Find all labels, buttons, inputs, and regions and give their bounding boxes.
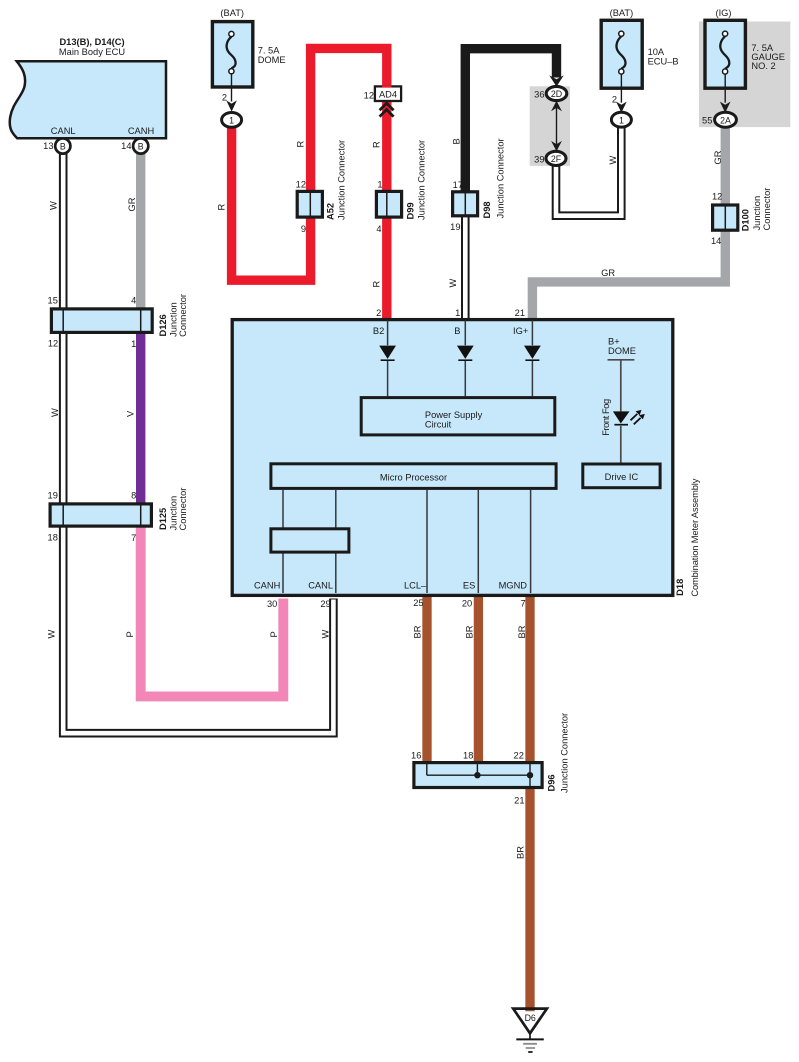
ground D6 bbox=[513, 1009, 547, 1052]
svg-text:(IG): (IG) bbox=[715, 8, 731, 18]
svg-text:20: 20 bbox=[462, 599, 472, 609]
svg-text:2: 2 bbox=[376, 308, 381, 318]
svg-text:D13(B), D14(C): D13(B), D14(C) bbox=[59, 37, 124, 47]
Power Supply Circuit box bbox=[361, 398, 555, 435]
svg-text:1: 1 bbox=[377, 180, 382, 190]
junction connector D98 bbox=[450, 138, 505, 232]
svg-text:1: 1 bbox=[229, 116, 234, 126]
fuse 7.5A DOME bbox=[212, 8, 285, 127]
svg-text:(BAT): (BAT) bbox=[220, 8, 244, 18]
Combination Meter Assembly D18 box bbox=[232, 320, 673, 596]
svg-text:B2: B2 bbox=[373, 326, 384, 336]
svg-text:7: 7 bbox=[521, 599, 526, 609]
meter top pin 1 B lead bbox=[464, 321, 466, 397]
connector 2D bbox=[534, 86, 567, 100]
svg-text:W: W bbox=[47, 630, 57, 639]
LED Front Fog bbox=[613, 410, 645, 463]
wire B from D98 up over to 2D connector bbox=[465, 49, 556, 215]
svg-text:19: 19 bbox=[48, 490, 58, 500]
svg-text:39: 39 bbox=[534, 154, 544, 164]
svg-text:Drive IC: Drive IC bbox=[605, 472, 639, 482]
svg-text:B: B bbox=[454, 326, 460, 336]
svg-text:DOME: DOME bbox=[258, 55, 286, 65]
svg-text:GR: GR bbox=[601, 268, 615, 278]
Micro Processor box bbox=[271, 464, 556, 489]
svg-text:18: 18 bbox=[48, 533, 58, 543]
diode at B2 bbox=[379, 346, 396, 359]
Main Body ECU D13(B), D14(C) box bbox=[10, 61, 166, 138]
Drive IC box bbox=[583, 464, 660, 488]
svg-text:GR: GR bbox=[713, 150, 723, 164]
wire W from 2F to ECU-B fuse circle 1 bbox=[556, 126, 621, 216]
meter top pin 21 IG+ lead bbox=[531, 321, 533, 397]
svg-text:IG+: IG+ bbox=[513, 326, 528, 336]
diode at IG+ bbox=[524, 346, 541, 359]
gray panel behind 2D/2F connector bbox=[530, 86, 570, 166]
svg-text:GR: GR bbox=[127, 197, 137, 211]
svg-text:4: 4 bbox=[131, 296, 136, 306]
svg-text:W: W bbox=[49, 201, 59, 210]
svg-text:D100: D100 bbox=[741, 209, 751, 231]
svg-text:R: R bbox=[372, 141, 382, 148]
B+ DOME node bbox=[608, 336, 636, 411]
svg-text:Junction Connector: Junction Connector bbox=[417, 140, 427, 220]
svg-text:8: 8 bbox=[131, 490, 136, 500]
svg-text:2: 2 bbox=[222, 93, 227, 103]
svg-text:ES: ES bbox=[463, 581, 475, 591]
svg-text:D99: D99 bbox=[406, 202, 416, 219]
svg-text:ECU–B: ECU–B bbox=[648, 56, 679, 66]
svg-text:Connector: Connector bbox=[762, 188, 772, 231]
arrowhead into 2D bbox=[549, 75, 564, 86]
svg-text:R: R bbox=[372, 281, 382, 288]
svg-text:7: 7 bbox=[131, 533, 136, 543]
svg-text:21: 21 bbox=[514, 795, 524, 805]
svg-text:2F: 2F bbox=[551, 154, 562, 164]
svg-text:30: 30 bbox=[267, 599, 277, 609]
Micro Processor box leads down bbox=[283, 490, 531, 593]
svg-text:16: 16 bbox=[411, 750, 421, 760]
svg-text:V: V bbox=[126, 410, 136, 417]
svg-text:DOME: DOME bbox=[608, 346, 636, 356]
svg-text:CANH: CANH bbox=[254, 581, 280, 591]
junction connector D100 bbox=[711, 188, 772, 246]
svg-text:Connector: Connector bbox=[178, 294, 188, 337]
meter top pin 2 B2 lead bbox=[387, 321, 389, 397]
fuse 10A ECU-B bbox=[601, 8, 678, 127]
svg-text:15: 15 bbox=[48, 296, 58, 306]
gray panel behind IG fuse bbox=[699, 22, 790, 128]
svg-text:A52: A52 bbox=[326, 203, 336, 220]
svg-text:29: 29 bbox=[320, 599, 330, 609]
svg-text:21: 21 bbox=[515, 308, 525, 318]
svg-text:Junction Connector: Junction Connector bbox=[337, 140, 347, 220]
svg-text:B+: B+ bbox=[608, 336, 620, 346]
svg-text:BR: BR bbox=[516, 846, 526, 859]
svg-text:Junction: Junction bbox=[752, 196, 762, 231]
svg-text:B: B bbox=[452, 138, 462, 144]
connector 2F bbox=[534, 151, 566, 165]
fuse 7.5A GAUGE NO.2 bbox=[702, 8, 785, 127]
wire GR from pin 14 to D126 bbox=[136, 150, 145, 322]
svg-text:CANL: CANL bbox=[308, 581, 333, 591]
wire W from pin 13 to CANL pin 29 of meter bbox=[63, 150, 333, 733]
svg-text:13: 13 bbox=[43, 141, 53, 151]
svg-text:W: W bbox=[608, 156, 618, 165]
svg-text:BR: BR bbox=[465, 625, 475, 638]
svg-text:LCL–: LCL– bbox=[404, 581, 427, 591]
svg-text:D6: D6 bbox=[525, 1013, 536, 1023]
svg-text:Circuit: Circuit bbox=[425, 420, 452, 430]
svg-text:4: 4 bbox=[376, 224, 381, 234]
svg-text:25: 25 bbox=[413, 598, 423, 608]
svg-text:CANH: CANH bbox=[128, 126, 154, 136]
svg-text:22: 22 bbox=[514, 750, 524, 760]
svg-text:2D: 2D bbox=[551, 89, 562, 99]
svg-text:12: 12 bbox=[296, 180, 306, 190]
svg-text:R: R bbox=[296, 141, 306, 148]
wire W from D98 pin 19 down to meter B pin 1 bbox=[461, 216, 470, 320]
wire R from DOME fuse through A52, AD4, D99 to meter B2 bbox=[232, 48, 387, 319]
svg-text:CANL: CANL bbox=[51, 126, 76, 136]
svg-text:19: 19 bbox=[450, 222, 460, 232]
svg-text:D18: D18 bbox=[675, 579, 685, 596]
svg-text:Micro Processor: Micro Processor bbox=[380, 473, 447, 483]
svg-text:55: 55 bbox=[702, 115, 712, 125]
svg-text:7. 5A: 7. 5A bbox=[258, 45, 281, 55]
svg-text:Front Fog: Front Fog bbox=[601, 399, 611, 436]
diode at B bbox=[457, 346, 474, 359]
svg-text:Combination Meter Assembly: Combination Meter Assembly bbox=[690, 478, 700, 596]
junction connector D125 bbox=[48, 488, 188, 543]
svg-text:Power Supply: Power Supply bbox=[425, 410, 483, 420]
svg-text:12: 12 bbox=[364, 90, 374, 100]
junction connector D96 bbox=[411, 713, 569, 806]
arrow line between 2D and 2F bbox=[551, 101, 562, 152]
wire BR from meter ES to D96 pin 18 bbox=[474, 595, 483, 763]
svg-text:(BAT): (BAT) bbox=[610, 8, 634, 18]
svg-text:36: 36 bbox=[534, 90, 544, 100]
svg-text:17: 17 bbox=[453, 180, 463, 190]
svg-text:B: B bbox=[60, 142, 66, 152]
junction connector A52 bbox=[296, 140, 347, 234]
svg-text:BR: BR bbox=[517, 625, 527, 638]
svg-text:BR: BR bbox=[413, 625, 423, 638]
junction connector D126 bbox=[48, 294, 188, 349]
svg-text:B: B bbox=[138, 142, 144, 152]
svg-text:18: 18 bbox=[463, 750, 473, 760]
svg-text:Main Body ECU: Main Body ECU bbox=[59, 47, 125, 57]
svg-text:W: W bbox=[448, 279, 458, 288]
svg-text:D98: D98 bbox=[482, 201, 492, 218]
svg-text:W: W bbox=[50, 408, 60, 417]
svg-text:R: R bbox=[217, 204, 227, 211]
svg-text:12: 12 bbox=[712, 191, 722, 201]
svg-text:Junction Connector: Junction Connector bbox=[559, 713, 569, 793]
svg-text:1: 1 bbox=[619, 115, 624, 125]
CAN resistor box bbox=[271, 529, 349, 552]
svg-text:1: 1 bbox=[131, 339, 136, 349]
svg-text:MGND: MGND bbox=[499, 581, 528, 591]
svg-text:14: 14 bbox=[121, 141, 131, 151]
svg-text:2: 2 bbox=[612, 95, 617, 105]
svg-text:9: 9 bbox=[301, 224, 306, 234]
svg-text:2A: 2A bbox=[720, 115, 731, 125]
junction connector D99 bbox=[376, 140, 426, 234]
wire V from D126 to D125 bbox=[136, 318, 145, 516]
svg-text:P: P bbox=[269, 631, 279, 637]
wire GR from IG fuse 2A through D100 to meter IG+ bbox=[532, 125, 725, 320]
wire BR from meter MGND through D96 pin 22/21 to ground D6 bbox=[525, 595, 534, 1011]
svg-text:AD4: AD4 bbox=[379, 90, 397, 100]
svg-text:14: 14 bbox=[711, 236, 721, 246]
svg-text:W: W bbox=[321, 630, 331, 639]
svg-text:D125: D125 bbox=[158, 508, 168, 530]
wire P from D125 to CANH pin 30 of meter bbox=[141, 512, 284, 696]
svg-text:D96: D96 bbox=[546, 774, 556, 791]
wire BR from meter LCL- to D96 pin 16 bbox=[422, 595, 431, 763]
svg-text:D126: D126 bbox=[158, 314, 168, 336]
svg-text:Connector: Connector bbox=[178, 488, 188, 531]
connector AD4 bbox=[364, 85, 401, 116]
svg-text:P: P bbox=[125, 631, 135, 637]
svg-text:12: 12 bbox=[48, 339, 58, 349]
svg-text:1: 1 bbox=[455, 308, 460, 318]
svg-text:Junction Connector: Junction Connector bbox=[496, 138, 506, 218]
svg-text:NO. 2: NO. 2 bbox=[751, 61, 775, 71]
